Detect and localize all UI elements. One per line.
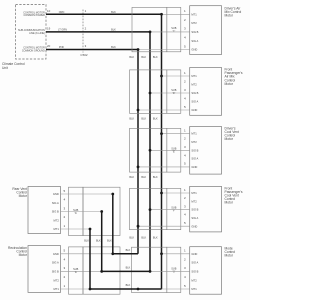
svg-text:2: 2	[63, 275, 65, 279]
tap line b3 to pin row 5 (group C)	[138, 166, 190, 168]
junction node (group D, b3)	[137, 225, 140, 228]
tap line b3 to pin row 5 (group B)	[138, 109, 190, 111]
junction node (group A, b3)	[137, 48, 140, 51]
svg-text:4: 4	[184, 153, 186, 157]
junction node (group C, b1)	[160, 132, 163, 135]
svg-text:10: 10	[47, 9, 51, 13]
svg-text:BLK: BLK	[153, 176, 158, 179]
svg-text:3: 3	[184, 266, 186, 270]
svg-text:BLK: BLK	[153, 237, 158, 240]
connector SUB 'B' (group RC)	[69, 247, 84, 294]
driver's cool vent control motor label	[225, 126, 239, 141]
bus color labels BLK (gap C-D)	[129, 176, 158, 179]
wire: K-line LT GRN/BLK (pin 19 to bus)	[46, 32, 150, 272]
junction node (group E, b2)	[149, 270, 152, 273]
wire: common power ORN/BLK (pin 10 to bus)	[46, 14, 162, 289]
junction node (group RV, w3)	[111, 193, 114, 196]
junction node (group B, b1)	[160, 75, 163, 78]
svg-text:Motor: Motor	[225, 137, 234, 141]
junction node (group C, b3)	[137, 166, 140, 169]
svg-text:2: 2	[184, 79, 186, 83]
svg-text:5: 5	[184, 44, 186, 48]
tap line pin row 1 (group RV)	[61, 193, 113, 195]
connector SUB 'E' (group C)	[167, 128, 181, 172]
svg-text:Motor: Motor	[19, 253, 28, 257]
tap line b3 to pin row 5 (group A)	[138, 49, 190, 51]
svg-text:COMMON POWER: COMMON POWER	[24, 14, 45, 17]
svg-text:C502: C502	[80, 53, 88, 57]
svg-text:SIG A: SIG A	[52, 261, 59, 265]
svg-text:GND: GND	[191, 165, 197, 169]
junction node (group B, b3)	[137, 109, 140, 112]
svg-text:Unit: Unit	[2, 66, 8, 70]
climate control unit caption	[2, 62, 25, 70]
svg-text:1: 1	[63, 284, 65, 288]
svg-text:5: 5	[184, 162, 186, 166]
svg-text:3: 3	[184, 145, 186, 149]
recirculation control motor box	[28, 246, 61, 293]
svg-text:5: 5	[184, 105, 186, 109]
svg-text:5: 5	[63, 189, 65, 193]
svg-text:3: 3	[63, 266, 65, 270]
recirculation control motor label	[8, 246, 28, 257]
tap line b1 to pin row 1 (group E)	[162, 253, 190, 255]
svg-text:BLK: BLK	[141, 56, 146, 59]
climate control unit (dashed box)	[16, 5, 47, 60]
bus color labels BLK (gap D-E)	[129, 237, 158, 240]
svg-text:3: 3	[184, 88, 186, 92]
tap line b1 to pin row 1 (group A)	[162, 13, 190, 15]
junction node (group A, b1)	[160, 13, 163, 16]
junction node (group RC, w2)	[100, 270, 103, 273]
tap line pin row 3 (group RV)	[61, 211, 102, 213]
svg-text:MT2: MT2	[191, 140, 197, 144]
svg-text:1: 1	[184, 249, 186, 253]
svg-text:BLK: BLK	[153, 117, 158, 120]
svg-text:1: 1	[184, 188, 186, 192]
svg-text:Motor: Motor	[225, 13, 234, 17]
bus color labels BLK (gap B-C)	[129, 117, 158, 120]
tap line pin row 1 (group RC)	[61, 253, 113, 255]
svg-text:2: 2	[184, 196, 186, 200]
svg-text:GND: GND	[53, 252, 59, 256]
svg-text:SIG B: SIG B	[52, 210, 59, 214]
svg-text:ORN: ORN	[59, 11, 65, 14]
junction node (group RV, w2)	[100, 210, 103, 213]
svg-text:5: 5	[184, 221, 186, 225]
wire: common ground PNK/BLK (pin 20 to bus)	[46, 50, 138, 254]
svg-text:PNK: PNK	[59, 46, 64, 49]
CCU label: control motor common power	[23, 11, 45, 17]
rear vent control motor label	[12, 187, 28, 198]
svg-text:2: 2	[63, 215, 65, 219]
tap line pin row 5 (group RV)	[61, 228, 91, 230]
svg-text:SIG A: SIG A	[52, 201, 59, 205]
svg-text:20: 20	[47, 44, 51, 48]
svg-text:BLK: BLK	[153, 56, 158, 59]
svg-text:2: 2	[184, 137, 186, 141]
svg-text:LT GRN: LT GRN	[58, 29, 67, 32]
svg-text:BLK: BLK	[111, 11, 116, 14]
connector SUB 'F' (group D)	[167, 188, 181, 229]
svg-text:BLK: BLK	[111, 46, 116, 49]
tap line b2 to pin row 3 (group C)	[150, 149, 190, 151]
svg-text:BLK: BLK	[141, 176, 146, 179]
svg-text:SIG B: SIG B	[191, 270, 198, 274]
svg-text:4: 4	[184, 213, 186, 217]
harness box (group RC)	[83, 247, 120, 294]
svg-text:BLK: BLK	[96, 239, 101, 242]
tap line b1 to pin row 1 (group B)	[162, 75, 190, 77]
svg-text:SIG A: SIG A	[191, 100, 198, 104]
svg-text:3: 3	[184, 27, 186, 31]
svg-text:BLK: BLK	[107, 239, 112, 242]
junction node (group RC, w3)	[111, 252, 114, 255]
junction node (group RC, w1)	[89, 288, 92, 291]
tap line b2 to pin row 3 (group D)	[150, 209, 190, 211]
rear vent control motor box	[28, 187, 61, 234]
junction node (group C, b2)	[149, 149, 152, 152]
CCU label: sub-communication line	[18, 29, 45, 35]
svg-text:4: 4	[184, 275, 186, 279]
svg-text:MT2: MT2	[54, 218, 60, 222]
svg-text:MT2: MT2	[191, 21, 197, 25]
tap line b2 to pin row 3 (group E)	[150, 270, 190, 272]
harness box (group B)	[130, 70, 167, 113]
svg-text:5: 5	[184, 284, 186, 288]
svg-text:1: 1	[184, 71, 186, 75]
svg-text:MT1: MT1	[191, 191, 197, 195]
svg-text:BLK: BLK	[111, 29, 116, 32]
svg-text:MT1: MT1	[191, 12, 197, 16]
svg-text:1: 1	[63, 224, 65, 228]
svg-text:4: 4	[184, 96, 186, 100]
connector SUB 'A' (group RV)	[69, 187, 84, 235]
tap line pin row 3 (group RC)	[61, 270, 102, 272]
junction node (group D, b2)	[149, 208, 152, 211]
svg-text:SIG B: SIG B	[191, 30, 198, 34]
svg-text:Motor: Motor	[19, 194, 28, 198]
junction node (group B, b2)	[149, 92, 152, 95]
svg-text:SIG A: SIG A	[191, 39, 198, 43]
tap line b1 to pin row 1 (group D)	[162, 192, 190, 194]
svg-text:1: 1	[184, 9, 186, 13]
svg-text:GND: GND	[191, 224, 197, 228]
connector C502 (dashed)	[82, 10, 84, 53]
svg-text:4: 4	[63, 198, 65, 202]
tap line b3 to pin row 5 (group D)	[138, 225, 190, 227]
svg-text:GND: GND	[191, 108, 197, 112]
svg-text:SIG B: SIG B	[52, 270, 59, 274]
junction node (group A, b2)	[149, 31, 152, 34]
tap line pin row 5 (group RC)	[61, 288, 91, 290]
front passenger's cool vent control motor box	[190, 186, 222, 232]
svg-text:Motor: Motor	[225, 82, 234, 86]
bus color labels BLK (gap A-B)	[129, 56, 158, 59]
svg-text:MT1: MT1	[191, 287, 197, 291]
svg-text:SIG B: SIG B	[191, 208, 198, 212]
svg-text:MT2: MT2	[191, 278, 197, 282]
svg-text:MT1: MT1	[191, 74, 197, 78]
svg-text:COMMON GROUND: COMMON GROUND	[22, 49, 45, 52]
tap line b2 to pin row 3 (group A)	[150, 31, 190, 33]
driver's air mix control motor label	[225, 6, 242, 17]
svg-text:5: 5	[63, 249, 65, 253]
svg-text:MT2: MT2	[191, 83, 197, 87]
connector SUB 'G' (group E)	[167, 247, 181, 292]
svg-text:MT1: MT1	[54, 287, 60, 291]
harness box (group C)	[130, 128, 167, 172]
connector SUB 'D' (group B)	[167, 70, 181, 113]
svg-text:Motor: Motor	[225, 254, 234, 258]
tap line b3 to pin row 5 (group E)	[138, 288, 190, 290]
svg-text:BLK: BLK	[129, 176, 134, 179]
svg-text:SIG A: SIG A	[191, 261, 198, 265]
harness box (group RV)	[83, 187, 120, 235]
svg-text:MT1: MT1	[191, 132, 197, 136]
harness box (group D)	[130, 188, 167, 229]
svg-text:BLK: BLK	[84, 239, 89, 242]
junction node (group E, b1)	[160, 252, 163, 255]
mode control motor label	[225, 247, 236, 258]
svg-text:MT2: MT2	[191, 199, 197, 203]
svg-text:BLK: BLK	[141, 117, 146, 120]
mode control motor box	[190, 247, 222, 295]
svg-text:SIG A: SIG A	[191, 216, 198, 220]
front passenger's air mix control motor box	[190, 68, 222, 116]
svg-text:GND: GND	[191, 48, 197, 52]
svg-text:GND: GND	[191, 252, 197, 256]
svg-text:4: 4	[184, 36, 186, 40]
svg-text:GND: GND	[53, 192, 59, 196]
wire: K-line link, rear vent pin3 down and right to mode pin3	[102, 212, 150, 272]
svg-text:3: 3	[184, 204, 186, 208]
svg-text:3: 3	[63, 206, 65, 210]
harness box (group A)	[132, 7, 167, 51]
wire: ground link, rear vent pin5 down and right to mode pin1	[113, 194, 138, 254]
svg-text:2: 2	[184, 18, 186, 22]
svg-text:Motor: Motor	[225, 201, 234, 205]
connector SUB 'C' (group A)	[167, 7, 181, 51]
svg-text:SIG B: SIG B	[191, 148, 198, 152]
svg-text:SIG B: SIG B	[191, 91, 198, 95]
wire: power link, rear vent pin1 down and right to mode pin5	[90, 229, 162, 289]
svg-text:BLK: BLK	[126, 249, 131, 252]
front passenger's air mix control motor label	[225, 68, 243, 86]
svg-text:'G': 'G'	[172, 270, 175, 273]
driver's cool vent control motor box	[190, 127, 222, 175]
svg-text:1: 1	[184, 128, 186, 132]
svg-text:BLK: BLK	[126, 267, 131, 270]
junction node (group D, b1)	[160, 192, 163, 195]
svg-text:19: 19	[47, 27, 51, 31]
svg-text:BLK: BLK	[129, 56, 134, 59]
svg-text:4: 4	[63, 257, 65, 261]
svg-text:MT1: MT1	[54, 227, 60, 231]
front passenger's cool vent control motor label	[225, 186, 243, 204]
tap line b1 to pin row 1 (group C)	[162, 133, 190, 135]
svg-text:BLK: BLK	[126, 284, 131, 287]
harness box (group E)	[132, 247, 167, 292]
svg-text:2: 2	[184, 257, 186, 261]
tap line b2 to pin row 3 (group B)	[150, 92, 190, 94]
junction node (group RV, w1)	[89, 228, 92, 231]
svg-text:SIG A: SIG A	[191, 157, 198, 161]
junction node (group E, b3)	[137, 288, 140, 291]
svg-text:BLK: BLK	[129, 117, 134, 120]
svg-text:BLK: BLK	[141, 237, 146, 240]
svg-text:BLK: BLK	[129, 237, 134, 240]
CCU label: control motor common ground	[22, 47, 45, 53]
svg-text:MT2: MT2	[54, 278, 60, 282]
svg-text:LINE (K-LINE): LINE (K-LINE)	[29, 32, 45, 35]
driver's air mix control motor box	[190, 6, 222, 55]
